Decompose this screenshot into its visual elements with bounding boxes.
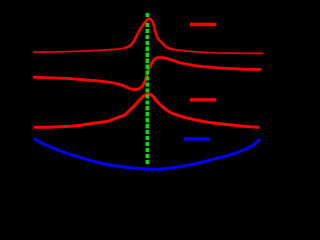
- legend line 3 (blue, bottom): [184, 137, 210, 140]
- red curve 3: broad Lorentzian peak: [34, 94, 260, 127]
- blue curve: broad minimum: [34, 139, 260, 170]
- red curve 1 peak overlay (thicker near resonance): [125, 19, 173, 50]
- green dashed resonance marker line (drawn on top): top dash: [145, 13, 149, 17]
- green dashed resonance marker line: dashed body: [145, 23, 149, 165]
- red curve 2: dispersion S-curve: [33, 58, 261, 90]
- legend line 1 (red, top): [190, 23, 216, 26]
- legend line 2 (red, middle): [190, 98, 216, 101]
- red curve 1: sharp Lorentzian peak: [33, 19, 263, 54]
